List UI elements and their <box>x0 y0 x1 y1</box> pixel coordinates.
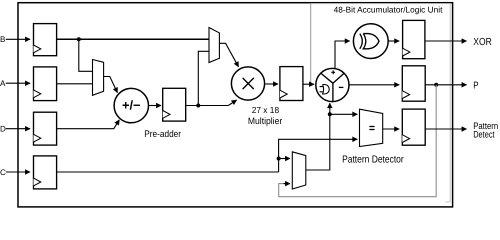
wire XOR gate to XOR register <box>388 40 399 42</box>
wire pre-adder to AD register <box>149 105 162 107</box>
wire comparator to pattern register <box>383 128 400 130</box>
wire AD up to mux2 <box>198 51 209 105</box>
wire XOR output <box>425 40 467 42</box>
wire C rail <box>57 171 279 173</box>
wire P output <box>425 84 466 86</box>
svg-text:27 x 18: 27 x 18 <box>252 105 279 115</box>
wire D to pre-adder <box>57 120 120 129</box>
outer border <box>18 3 453 207</box>
register AD <box>163 88 186 121</box>
node A <box>0 79 30 88</box>
wire B rail to mux2 <box>57 38 209 40</box>
multiplier U2 <box>231 67 264 100</box>
svg-text:Pattern Detector: Pattern Detector <box>342 154 404 165</box>
node junction AD <box>196 104 200 108</box>
wire W to comparator <box>330 113 358 115</box>
svg-text:+/−: +/− <box>122 98 141 113</box>
node D <box>0 125 30 134</box>
svg-text:Pre-adder: Pre-adder <box>144 129 181 140</box>
48-bit accumulator/logic unit box <box>311 4 451 202</box>
register M <box>280 67 303 101</box>
node junction W <box>328 112 332 116</box>
svg-text:D: D <box>0 125 6 134</box>
register A <box>34 67 57 101</box>
wire C to mux3 <box>279 158 290 160</box>
wire multiplier to M register <box>265 83 278 85</box>
register D <box>34 112 57 145</box>
node junction P <box>434 83 438 87</box>
node B <box>0 35 30 44</box>
svg-text:48-Bit Accumulator/Logic Unit: 48-Bit Accumulator/Logic Unit <box>334 4 443 14</box>
wire P feedback (gray) <box>279 85 437 197</box>
node junction B <box>77 37 81 41</box>
wire feedback arrow into mux3 <box>284 183 291 185</box>
register C <box>34 156 57 189</box>
wire M to ALU <box>303 83 314 85</box>
svg-text:B: B <box>0 35 5 44</box>
wire AD out <box>186 105 229 107</box>
mux M1 (A/B select) <box>93 60 104 96</box>
register XOR out <box>403 20 425 58</box>
node C <box>0 168 30 177</box>
wire B down to mux1 <box>79 39 93 71</box>
wire A to mux1 <box>57 83 93 85</box>
pre-adder U1 <box>114 88 148 122</box>
register P <box>402 66 425 101</box>
node Pattern Detect label <box>473 120 498 140</box>
comparator = (pattern detector) <box>360 109 383 146</box>
register B <box>34 24 57 56</box>
wire ALU top to XOR gate <box>335 41 350 69</box>
wire mux2 to multiplier <box>219 43 238 67</box>
mux M2 (B/AD select) <box>209 28 219 63</box>
svg-text:C: C <box>0 168 6 177</box>
node junction C top <box>277 157 281 161</box>
svg-text:P: P <box>473 81 479 92</box>
svg-text:Multiplier: Multiplier <box>248 116 282 126</box>
svg-text:A: A <box>0 79 6 88</box>
wire ALU to P register <box>349 84 399 86</box>
wire pattern detect output <box>425 128 466 130</box>
mux M3 (C/P select) <box>292 152 306 189</box>
wire C up branch to comparator <box>279 139 358 172</box>
wire mux3 output to ALU bottom <box>306 103 330 170</box>
wire mux1 to pre-adder <box>104 77 118 93</box>
svg-text:XOR: XOR <box>473 37 491 48</box>
XOR gate U4 <box>353 24 388 59</box>
register pattern detect <box>402 109 425 145</box>
ALU U3 <box>316 68 349 101</box>
svg-text:Detect: Detect <box>473 129 495 140</box>
wire AD diagonal to multiplier <box>228 100 236 106</box>
